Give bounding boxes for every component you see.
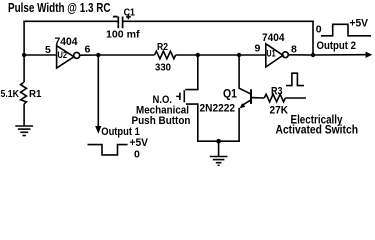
op-amp inverter U1	[266, 44, 283, 67]
svg-text:9: 9	[255, 43, 261, 55]
svg-text:0: 0	[316, 24, 322, 36]
C1 minus polarity	[113, 16, 118, 18]
wire Q1 base to R3	[252, 97, 264, 99]
svg-text:Output 2: Output 2	[317, 40, 357, 52]
svg-text:2N2222: 2N2222	[200, 103, 236, 115]
transistor Q1 base bar	[250, 89, 252, 104]
C1 plus polarity	[126, 15, 131, 20]
svg-text:27K: 27K	[270, 105, 289, 117]
wire Output 1 drop	[97, 55, 99, 127]
waveform Output 2	[321, 24, 371, 36]
wire ground stem	[218, 141, 220, 156]
node ground junction	[216, 139, 221, 144]
svg-text:100 mf: 100 mf	[106, 28, 140, 40]
transistor Q1 emitter arrow	[240, 103, 246, 108]
node U2 output junction	[96, 53, 100, 57]
wire main node to R2	[98, 54, 154, 56]
waveform trigger pulse glyph	[286, 73, 304, 85]
resistor R3	[264, 94, 285, 102]
wire emitter to bottom rail	[238, 108, 240, 141]
wire U2 output to node	[80, 54, 99, 56]
switch S1 actuator stem	[176, 95, 180, 97]
node collector junction	[237, 53, 241, 57]
svg-text:C1: C1	[124, 6, 135, 18]
wire U2 input	[24, 54, 57, 56]
U1 output bubble	[283, 52, 289, 58]
resistor R1	[21, 82, 27, 104]
switch S1 movable bar	[183, 90, 185, 102]
svg-text:U1: U1	[267, 48, 277, 59]
svg-text:+5V: +5V	[130, 137, 149, 149]
svg-text:R2: R2	[157, 41, 168, 53]
svg-text:7404: 7404	[262, 32, 285, 44]
ground center	[210, 157, 228, 166]
svg-text:R3: R3	[271, 85, 283, 97]
svg-text:U2: U2	[58, 50, 68, 61]
capacitor C1	[118, 17, 122, 29]
wire R2 to button node	[176, 54, 198, 56]
op-amp inverter U2	[57, 46, 74, 68]
node junction left rail to U2 input	[22, 53, 26, 57]
wire top rail left segment	[23, 20, 117, 22]
wire bottom rail	[197, 140, 240, 142]
arrow Output 1	[95, 126, 101, 134]
svg-text:Activated Switch: Activated Switch	[276, 123, 359, 137]
wire R1 to ground	[23, 104, 25, 126]
waveform Output 1	[88, 145, 128, 155]
node feedback junction	[311, 53, 315, 57]
wire top-right drop	[312, 21, 314, 56]
arrow Output 2	[366, 52, 373, 58]
svg-text:+5V: +5V	[350, 17, 369, 29]
wire output 2	[313, 54, 366, 56]
U2 output bubble	[74, 52, 80, 58]
svg-text:Output 1: Output 1	[101, 126, 140, 138]
svg-text:Pulse Width @ 1.3 RC: Pulse Width @ 1.3 RC	[8, 1, 111, 15]
svg-text:5.1K: 5.1K	[1, 88, 20, 100]
switch S1 button cap	[179, 93, 181, 100]
svg-text:5: 5	[45, 44, 51, 56]
switch S1 push button bottom terminal	[186, 104, 198, 141]
node push button junction	[196, 53, 200, 57]
svg-text:Q1: Q1	[223, 88, 238, 100]
ground below R1	[15, 126, 33, 136]
transistor Q1 emitter lead	[243, 100, 251, 105]
svg-text:0: 0	[134, 148, 140, 160]
wire R3 to input point	[285, 97, 306, 99]
wire left rail vertical	[23, 21, 25, 83]
svg-text:8: 8	[291, 44, 297, 56]
transistor Q1 collector lead	[239, 55, 250, 94]
wire U1 output to node	[288, 54, 313, 56]
svg-text:6: 6	[85, 44, 91, 56]
svg-text:R1: R1	[29, 88, 42, 100]
wire button node to collector node	[198, 54, 239, 56]
wire collector node to U1 input	[239, 54, 266, 56]
switch S1 push button top terminal	[185, 55, 198, 90]
svg-text:Push Button: Push Button	[132, 115, 191, 127]
svg-text:330: 330	[155, 61, 171, 73]
resistor R2	[155, 51, 176, 59]
wire top rail right segment	[123, 20, 314, 22]
